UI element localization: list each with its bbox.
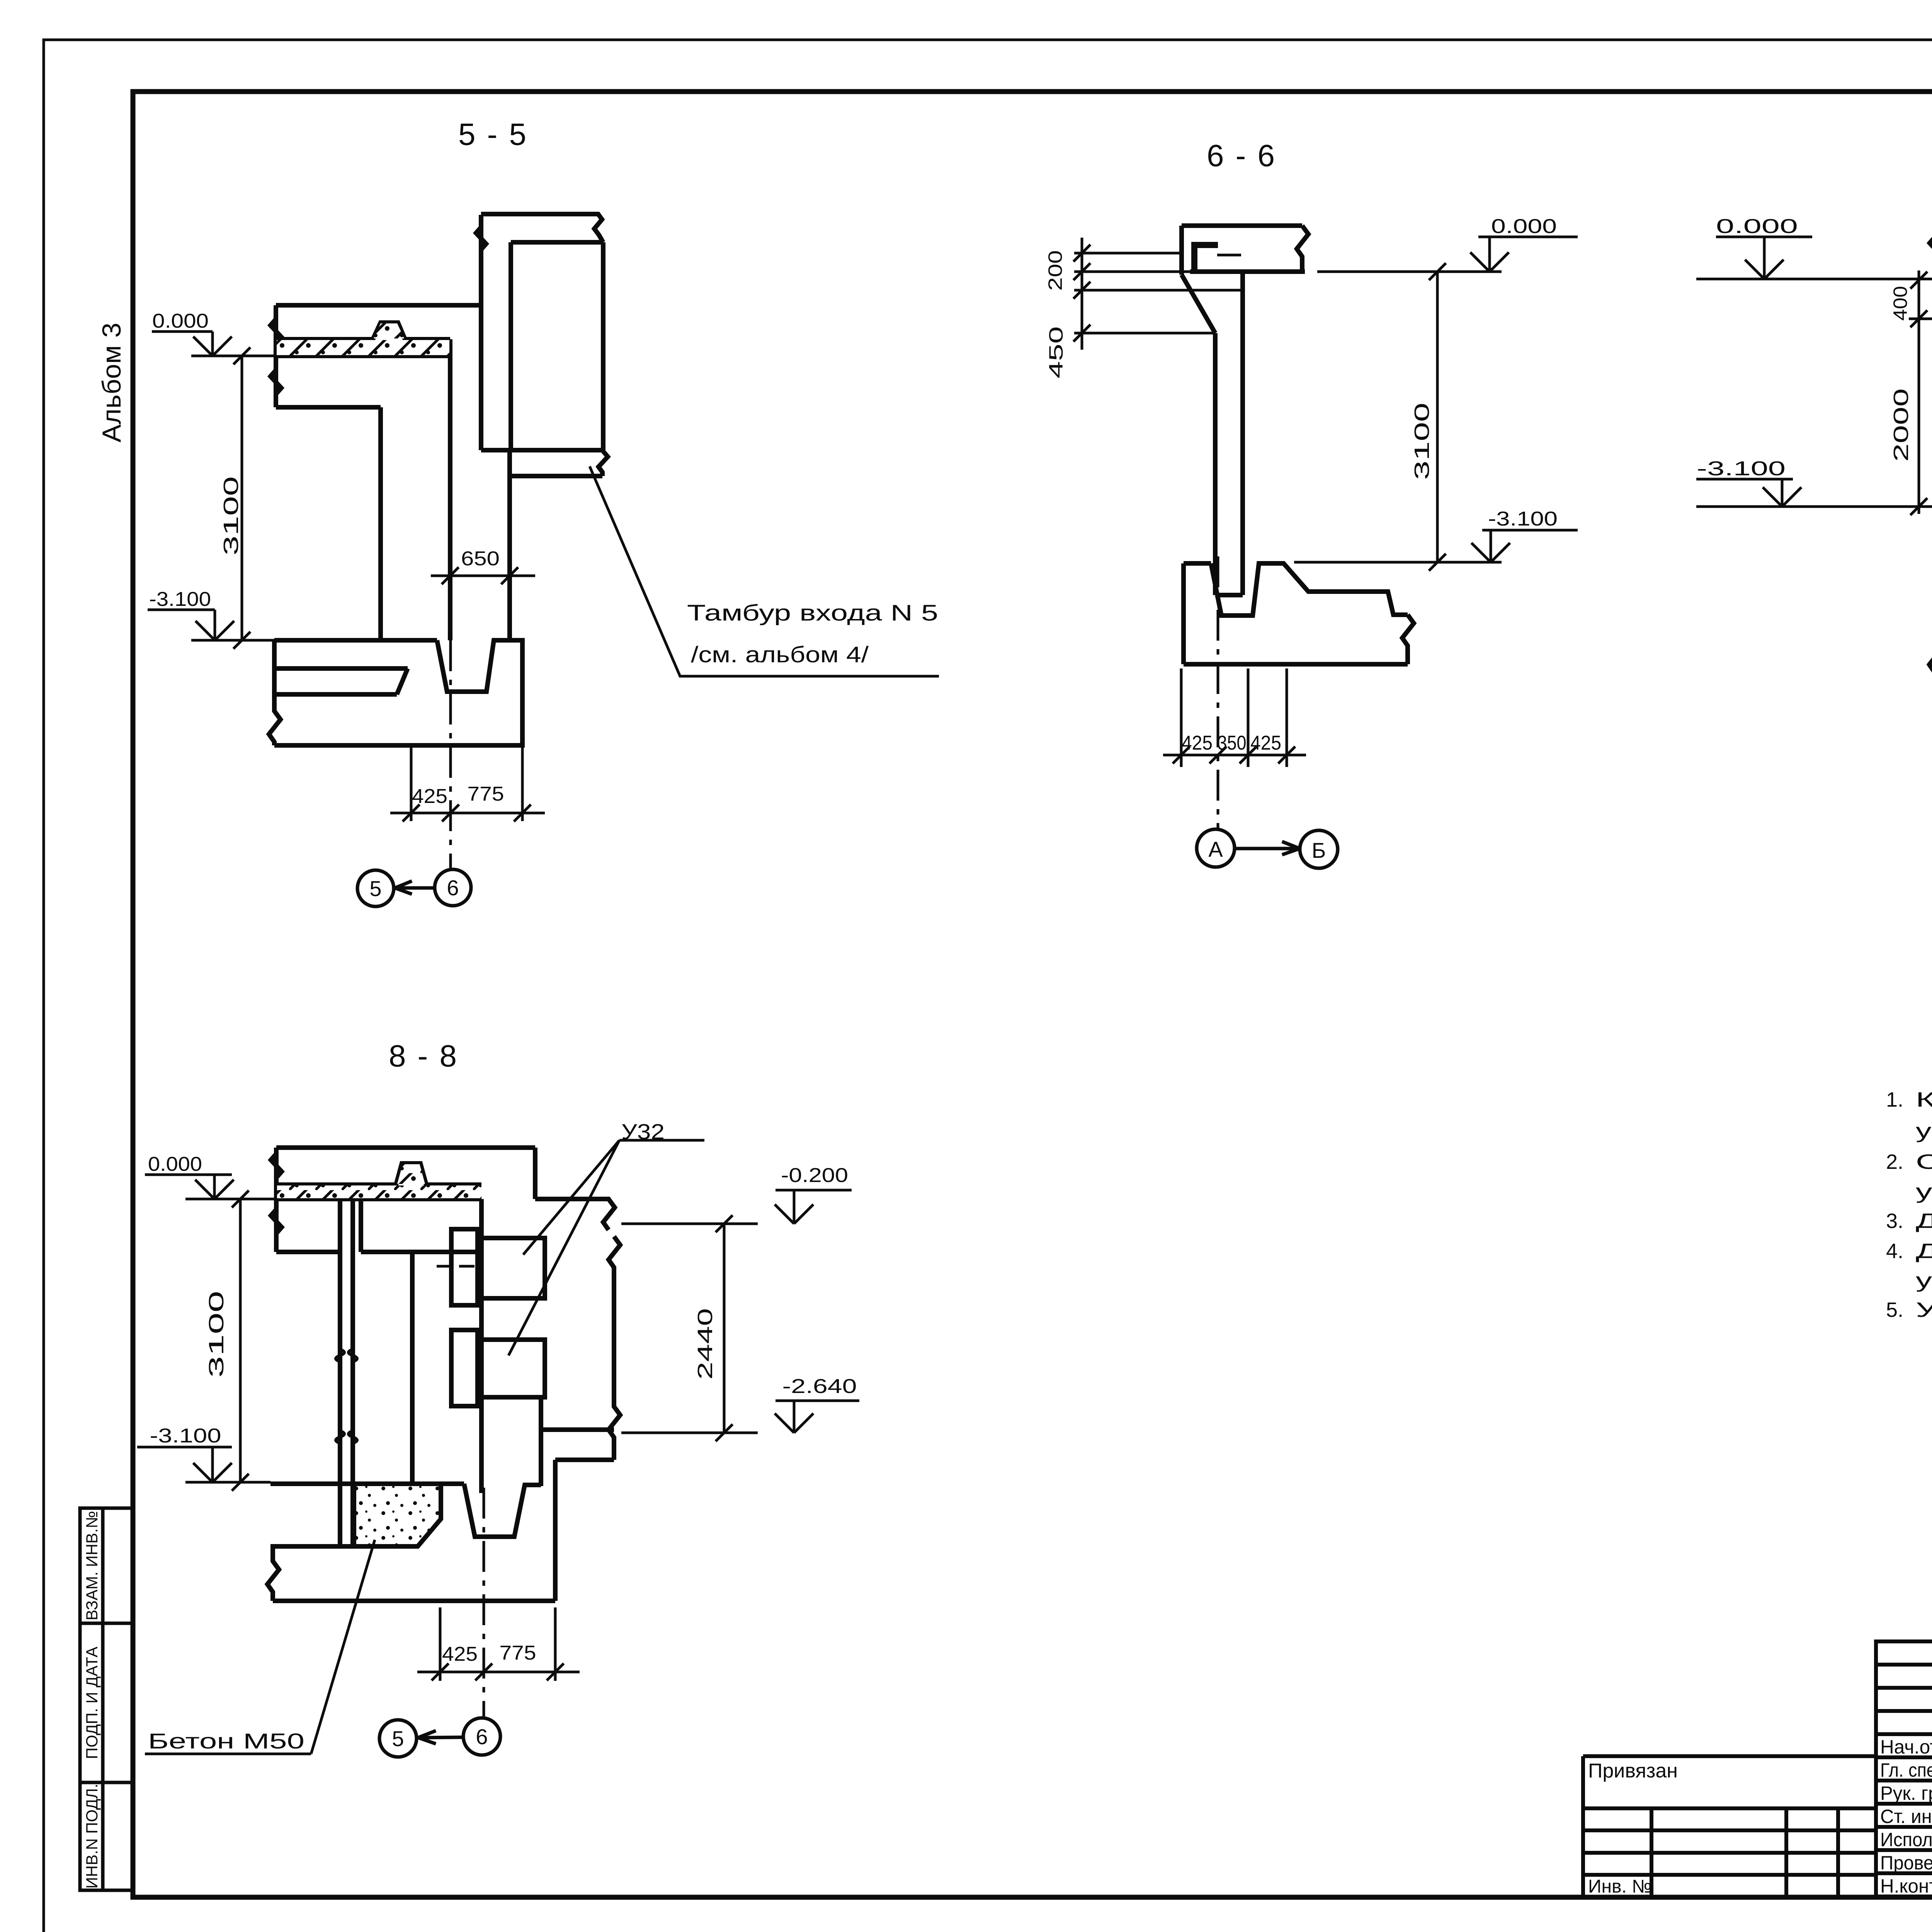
svg-text:Коробки У32 заказаны в чертежа: Коробки У32 заказаны в чертежах ОВ. Дета… <box>1916 1088 1932 1111</box>
svg-text:0.000: 0.000 <box>152 310 209 332</box>
svg-text:2000: 2000 <box>1889 388 1913 462</box>
svg-text:Гл. спец.: Гл. спец. <box>1880 1759 1932 1781</box>
svg-text:Бетон М50: Бетон М50 <box>148 1729 304 1753</box>
svg-text:3100: 3100 <box>205 1291 228 1378</box>
svg-text:3.: 3. <box>1886 1209 1903 1233</box>
svg-text:У32: У32 <box>621 1119 665 1144</box>
svg-text:775: 775 <box>500 1642 536 1664</box>
svg-text:Б: Б <box>1312 838 1326 862</box>
svg-text:425: 425 <box>442 1643 478 1665</box>
svg-text:установки ставни дана в альбом: установки ставни дана в альбоме 4. <box>1916 1180 1932 1203</box>
svg-text:-3.100: -3.100 <box>150 1425 221 1447</box>
svg-text:Н.контр.: Н.контр. <box>1880 1875 1932 1897</box>
svg-text:4.: 4. <box>1886 1240 1903 1263</box>
svg-text:Ст. инж.: Ст. инж. <box>1880 1806 1932 1827</box>
svg-text:условно не показаны.: условно не показаны. <box>1916 1269 1932 1292</box>
svg-text:400: 400 <box>1889 286 1911 321</box>
svg-text:5.: 5. <box>1886 1298 1903 1321</box>
svg-text:425: 425 <box>1250 732 1281 754</box>
svg-text:425: 425 <box>1182 732 1213 754</box>
svg-text:775: 775 <box>468 783 504 805</box>
svg-text:425: 425 <box>412 785 447 808</box>
svg-text:3100: 3100 <box>219 476 243 556</box>
svg-text:5: 5 <box>369 876 381 901</box>
svg-text:2440: 2440 <box>694 1308 717 1380</box>
svg-text:8 - 8: 8 - 8 <box>389 1039 458 1073</box>
svg-text:Нач.отд: Нач.отд <box>1880 1736 1932 1758</box>
svg-text:Тамбур входа N 5: Тамбур входа N 5 <box>687 600 938 626</box>
svg-text:1.: 1. <box>1886 1088 1903 1111</box>
svg-text:Детали КПК диаметром до 400 мм: Детали КПК диаметром до 400 мм на чертеж… <box>1916 1240 1932 1263</box>
svg-text:Инв. №: Инв. № <box>1588 1876 1652 1897</box>
svg-text:Рук. гр.: Рук. гр. <box>1880 1782 1932 1804</box>
svg-text:5: 5 <box>392 1726 404 1751</box>
svg-text:350: 350 <box>1218 732 1247 754</box>
svg-text:450: 450 <box>1045 327 1067 379</box>
svg-text:0.000: 0.000 <box>148 1153 202 1175</box>
svg-text:А: А <box>1208 837 1223 861</box>
svg-text:2.: 2. <box>1886 1150 1903 1173</box>
svg-text:ВЗАМ. ИНВ.№: ВЗАМ. ИНВ.№ <box>83 1511 101 1621</box>
svg-text:6: 6 <box>476 1725 488 1749</box>
svg-text:Альбом 3: Альбом 3 <box>97 323 126 442</box>
svg-text:-0.200: -0.200 <box>781 1164 848 1187</box>
svg-text:Исполн.: Исполн. <box>1880 1829 1932 1850</box>
svg-text:6 - 6: 6 - 6 <box>1207 138 1276 173</box>
svg-text:ИНВ.N ПОДЛ.: ИНВ.N ПОДЛ. <box>83 1784 101 1889</box>
svg-text:-3.100: -3.100 <box>149 588 211 611</box>
svg-text:Провер.: Провер. <box>1880 1852 1932 1874</box>
svg-text:-3.100: -3.100 <box>1697 457 1786 480</box>
svg-text:200: 200 <box>1044 250 1066 291</box>
svg-text:установки коробок дана на КЖ-1: установки коробок дана на КЖ-1, л.15. <box>1916 1119 1932 1143</box>
svg-text:Данный лист читать совместно с: Данный лист читать совместно с листом 11 <box>1916 1209 1932 1233</box>
svg-text:-2.640: -2.640 <box>782 1375 857 1398</box>
svg-text:6: 6 <box>447 876 459 900</box>
svg-text:Установку деталей КПК см. на К: Установку деталей КПК см. на КЖ-1, л.л. … <box>1916 1298 1932 1321</box>
svg-text:0.000: 0.000 <box>1716 215 1798 238</box>
svg-text:650: 650 <box>461 548 500 570</box>
svg-text:3100: 3100 <box>1410 403 1434 480</box>
svg-text:5 - 5: 5 - 5 <box>458 117 528 151</box>
svg-text:ПОДП. И ДАТА: ПОДП. И ДАТА <box>83 1646 101 1759</box>
svg-text:Ставни заказаны в чертежах мар: Ставни заказаны в чертежах марки АР. Дет… <box>1916 1150 1932 1173</box>
svg-text:-3.100: -3.100 <box>1488 508 1558 530</box>
svg-text:Привязан: Привязан <box>1588 1760 1678 1782</box>
svg-text:/см. альбом 4/: /см. альбом 4/ <box>691 642 869 667</box>
svg-text:0.000: 0.000 <box>1491 215 1557 238</box>
